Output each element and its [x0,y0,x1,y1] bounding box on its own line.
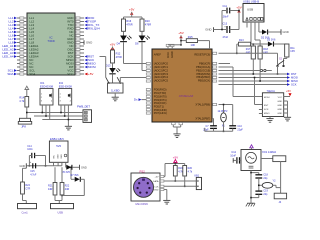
svg-text:GND: GND [277,105,282,107]
svg-text:Dx: Dx [134,98,138,102]
wire D4 cathode to U2 ADC0 pin [123,42,125,63]
wire PB0 [219,63,231,65]
wire D6 cathode to U2 ADC pin [141,42,143,70]
U2 left pin boxes (ADC rows) [146,62,150,64]
pad connector Con1 (flat) [18,204,37,209]
svg-text:GND: GND [277,113,282,115]
capacitor C19 22p [255,190,262,192]
svg-text:GND: GND [277,101,282,103]
U1 left pin 4 (LL4) wire+box [17,28,27,30]
wire S2 to RESET net [277,66,279,74]
svg-text:73C9: 73C9 [47,39,55,43]
net label RXLQX4 [85,27,88,30]
svg-text:R21: R21 [48,185,53,188]
zener D5 at regulator out [65,166,68,168]
U1 right pin 24 (GND) wire+box [75,42,84,44]
svg-text:R20: R20 [188,167,193,170]
resistor R15 AREF filter [186,39,197,43]
net label RXL_TX [85,24,88,27]
wire D5 to GND tap [72,166,79,168]
svg-text:GND: GND [154,190,159,192]
svg-text:+5V: +5V [178,31,183,35]
net label LED_A2 [14,48,17,51]
net label RST [85,55,88,58]
svg-text:C13: C13 [223,22,228,25]
USB D+ wire [254,22,256,40]
USB data joins [252,59,254,74]
wire R15 right down to U2 [198,40,210,42]
wire D13 to switch [112,75,114,84]
wires C14 [29,155,31,157]
USB shield pin [261,18,263,21]
U1 left pin 9 (LEDA1) wire+box [17,45,27,47]
IO1 pin wires to bus [41,105,43,113]
svg-text:RXLQX4: RXLQX4 [88,27,100,31]
ground tap on U1 pin GND [83,40,85,44]
svg-text:44R: 44R [48,188,53,191]
wire R23 to pad Con1 [22,194,24,201]
net label LL6 [14,34,17,37]
bus ground stem [67,120,69,127]
USB GND wire to zener row [258,22,260,32]
U1 left pin 11 (LEDA3) wire+box [17,52,27,54]
header ICSP1 body [262,93,283,117]
U1 left pin 16 (SCL) wire+box [17,70,27,72]
earth ground bottom right [247,202,255,204]
net label LL4 [14,27,17,30]
ground under S_KBD [114,93,116,97]
svg-text:GND: GND [86,41,92,45]
switch S1 S_KBD body [108,83,124,93]
net stub Dx into U2 PD3 [142,99,147,101]
ground under U2 [173,133,180,135]
U2 left pin boxes (PD rows) [146,89,150,91]
U1 left pin 17 (SDA) wire+box [17,73,27,75]
svg-text:C7R: C7R [25,188,30,191]
svg-text:USB: USB [247,7,253,11]
resistor R12 470R [111,50,115,63]
svg-text:C19: C19 [263,190,268,193]
wire MISO row [219,80,288,82]
connector USB1 body [243,4,264,23]
wire R10 to D6 [141,31,143,35]
U1 left pin 13 (NC) wire+box [17,59,27,61]
U1 left pin 3 (LL3) wire+box [17,24,27,26]
svg-text:47uF: 47uF [223,36,229,39]
svg-text:D5 3V6: D5 3V6 [62,171,71,174]
branch to resonator column [251,172,259,174]
svg-text:MOSI: MOSI [264,97,270,99]
connector PS2 body [131,173,160,201]
svg-text:R17: R17 [246,48,251,51]
wire MOSI row [219,77,288,79]
net label MISO [85,62,88,65]
PS2 GND wire [160,189,167,191]
wire XTAL2 to C7 [212,118,214,120]
U1 left pin 8 (LL8) wire+box [17,42,27,44]
wire PB2 to jumper circles [219,70,261,72]
U1 right pin 25 (NC) wire+box [75,45,84,47]
wire PB1 to ISP [219,66,234,68]
U1 left pin 7 (LL7) wire+box [17,38,27,40]
net label SDA [14,73,17,76]
USB D- wire [250,22,252,44]
U1 right pin 18 (INT0) wire+box [75,21,84,23]
U1 right pin 33 (VCC) wire+box [75,73,84,75]
crystal bottom rail [213,129,215,132]
svg-text:R18: R18 [263,48,268,51]
net label LED_A3 [14,52,17,55]
wire crystal to bottom rail [223,122,225,131]
resistor R14 4.7k [25,97,29,108]
net label LL1 [14,17,17,20]
net label MOSI [85,66,88,69]
U1 left pin 10 (LEDA2) wire+box [17,49,27,51]
resistor R22 44R [61,167,63,182]
zener D7 [71,178,75,180]
wire C18 to node [258,178,260,191]
svg-text:SCK: SCK [264,109,269,111]
capacitor C7 22pF [210,125,217,127]
svg-text:D7 3V6: D7 3V6 [71,174,80,177]
svg-text:100nF: 100nF [222,16,230,19]
jumper JP2 [273,156,286,162]
ESD suppressor IO4 body [59,89,72,106]
resistor R19 4K7 (DATA pullup) [174,164,176,166]
wire SCK row [219,84,288,86]
capacitor C18 22p [255,174,262,176]
U1 right pin 20 (RXD) wire+box [75,28,84,30]
wire D7 cathode [80,178,84,180]
wire AVCC rail [168,44,181,46]
U1 right pin 28 (SCK) wire+box [75,56,84,58]
svg-text:22p: 22p [263,177,268,180]
+5V rail for pullups [165,163,185,165]
resistor R21 44R [54,167,56,182]
resistor R23 (left column) [22,168,24,182]
wire U2 RESET [219,52,278,54]
wire XO1 bottom leg [250,171,252,204]
net label SCK [85,59,88,62]
net label TXOP [85,20,88,23]
U1 left pin 2 (LL2) wire+box [17,21,27,23]
svg-text:C18: C18 [263,173,268,176]
ground symbol under bus [65,125,72,127]
PS2 CLK wire [160,185,196,187]
svg-text:+5V: +5V [155,177,159,179]
wire S_KBD to U2 (PC input) [119,78,121,84]
power flag (gray) above R14 [26,89,28,97]
wire LED feed split [124,16,143,18]
IC U1 (I/O expander, green body) [27,13,75,75]
U1 left pin 14 (NC) wire+box [17,63,27,65]
wire R16 to D4 [123,31,125,35]
wire R12 to D13 [112,63,114,68]
U1 left pin 12 (LEDA4) wire+box [17,56,27,58]
svg-text:R11: R11 [290,47,295,50]
ICSP1 bottom pin + ground [269,117,271,119]
oscillator XO1 body [241,150,261,171]
svg-text:+5V: +5V [236,5,241,9]
U1 right pin 29 (MISO) wire+box [75,59,84,61]
jumper JP8 [20,118,31,121]
zener D2 3V6 [262,30,267,35]
wires C13 [222,29,227,31]
svg-text:RST: RST [264,105,269,107]
net label LED_A4 [14,55,17,58]
regulator IC2 body [49,141,68,162]
resistor R10 470R [140,19,144,31]
svg-text:SDA: SDA [29,72,35,76]
crystal Y1 body [223,105,225,113]
svg-text:C14: C14 [27,145,32,148]
svg-text:22pF: 22pF [237,128,243,131]
svg-text:C15: C15 [30,170,35,173]
wire R15 left [181,40,186,42]
svg-text:4.7k: 4.7k [188,170,193,173]
svg-text:MOSI: MOSI [88,65,96,69]
svg-text:ATMEGA8: ATMEGA8 [179,94,194,98]
net label LED_A1 [14,45,17,48]
svg-text:VIN: VIN [53,155,55,159]
svg-text:100n: 100n [27,148,33,151]
connector J2 PWB_DET body [83,110,92,123]
net label SCL [14,69,17,72]
svg-text:+5V: +5V [110,42,115,46]
svg-text:1K5: 1K5 [290,50,295,53]
resistor R11 1K5 pullup [285,44,289,57]
svg-text:MISO: MISO [264,113,270,115]
bus wire row 3 [42,119,83,121]
resonator Y2 [262,182,273,188]
capacitor C10 22pF [232,105,234,126]
IO4 pin wires to bus [60,105,62,113]
wire D2 to GND tap [268,31,281,33]
svg-text:Mini DIN6: Mini DIN6 [136,202,149,206]
U2 bottom GND pins [172,122,174,127]
net label LL8 [14,41,17,44]
wire resistors to USB pad [54,195,56,201]
wire C11-C13 left leg [221,11,223,30]
U1 right pin 26 (OSC) wire+box [75,49,84,51]
svg-text:CLK: CLK [154,186,159,188]
U1 right pin 27 (RST) wire+box [75,52,84,54]
U1 left pin 6 (LL6) wire+box [17,35,27,37]
svg-text:GND: GND [58,154,60,159]
wire JP2 down leg [280,162,282,188]
svg-text:GND: GND [283,30,289,34]
IC U2 ATMEGA8 (brown body) [152,49,212,122]
pushbutton S2 [277,65,279,67]
ICSP1 right pin wires [284,96,290,98]
wires C11 [222,10,227,12]
wire XTAL1 to crystal [219,104,233,106]
wire Y2 to JP2 leg [275,185,277,187]
ESD suppressor IO1 body [40,89,53,106]
net label LL3 [14,24,17,27]
U1 right pin 23 (GND) wire+box [75,38,84,40]
ground right of ICSP1 [284,116,291,118]
U1 right pin 19 (TXD) wire+box [75,24,84,26]
U1 right pin 30 (MOSI) wire+box [75,63,84,65]
U1 left pin 15 (NC) wire+box [17,66,27,68]
PS2 mini-DIN face [134,177,154,197]
U1 left pin 1 (LL1) wire+box [17,17,27,19]
svg-text:VCC: VCC [67,72,73,76]
U1 right pin 21 (NC) wire+box [75,31,84,33]
resistor R16 470R [122,19,126,31]
svg-text:22p: 22p [263,193,268,196]
USB VBUS wire [246,22,248,28]
net label LL7 [14,38,17,41]
svg-text:4.7uF: 4.7uF [30,174,37,177]
pad connector USB (flat) [58,201,60,204]
wire R11 to reset switch [286,57,288,59]
svg-text:D3 3V6: D3 3V6 [267,38,276,41]
wire C19 to bottom [258,195,260,198]
wire D7 leg to resistors [62,195,84,197]
net label LL2 [14,20,17,23]
input rail wire [26,165,62,167]
U2 right pin boxes (PB rows) [213,62,217,64]
net label LL5 [14,31,17,34]
ground under PS2 [163,199,170,201]
power flag (violet) above XO1 [250,145,253,148]
svg-text:GND: GND [61,154,63,159]
U1 right pin 17 (GND) wire+box [75,17,84,19]
wire MOSI down to ISP [254,78,256,105]
PS2 +5V pin wire [160,176,165,178]
resistor R20 4K7 (CLK pullup) [184,164,186,166]
wire XO1 out to JP2 [261,158,273,160]
svg-text:LED_A4: LED_A4 [2,55,14,59]
svg-text:+5V: +5V [88,72,93,76]
USB1 pin glyphs [246,18,248,21]
PS2 DATA wire [160,180,196,182]
svg-text:C10: C10 [237,125,242,128]
svg-text:C12: C12 [231,151,236,154]
switch S1 levers [106,77,109,83]
svg-text:GND: GND [277,109,282,111]
svg-text:R22: R22 [65,185,70,188]
svg-text:R24: R24 [25,184,30,187]
net label RXD [85,17,88,20]
wire RST row [219,73,288,75]
regulator pins down [53,162,55,166]
capacitor C15 4.7uF electrolytic [32,163,34,168]
svg-text:GND: GND [205,28,211,32]
resistor R18 68R (D+) [258,46,262,59]
svg-text:+5V: +5V [129,8,134,12]
svg-text:10nF: 10nF [230,155,236,158]
U1 right pin 22 (NC) wire+box [75,35,84,37]
svg-text:SDA: SDA [7,72,13,76]
resistor R14b 68R (D-) [251,46,255,59]
svg-text:R13: R13 [239,39,244,42]
svg-text:VCC: VCC [278,97,283,99]
wire RST net to S_KBD left lever [100,56,106,58]
U1 left pin 5 (LL5) wire+box [17,31,27,33]
svg-text:44R: 44R [65,188,70,191]
U1 right pin 32 (VCC) wire+box [75,70,84,72]
power +5V on U1 VCC pin [85,73,88,76]
wire R14 to bus [26,107,28,118]
bus wire row 2 [34,115,83,117]
ICSP1 left stubs [259,109,263,111]
U1 right pin 31 (INT) wire+box [75,66,84,68]
bus wire row 1 [27,112,83,114]
LED D13 (points down) [109,68,115,73]
U2 top pins AVCC AGND [167,45,169,49]
jumper J4 flat [280,188,282,194]
